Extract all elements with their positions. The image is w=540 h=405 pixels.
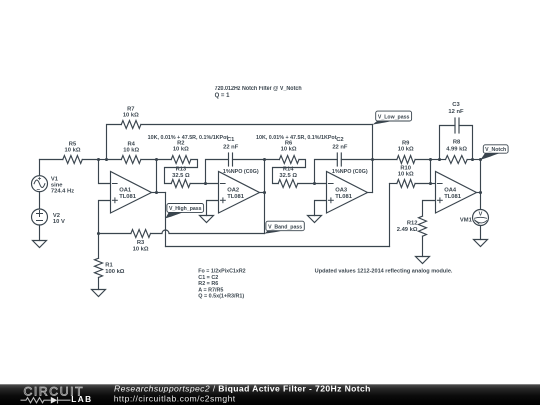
node: OA4 summing junction <box>429 182 432 185</box>
wire: high-pass bottom feed <box>166 246 390 248</box>
svg-text:32.5 Ω: 32.5 Ω <box>279 173 297 179</box>
resistor R13 32.5 ohm <box>171 180 190 188</box>
voltmeter VM1 <box>473 210 489 226</box>
svg-text:32.5 Ω: 32.5 Ω <box>172 173 190 179</box>
wire: OA4 output <box>477 192 481 194</box>
wire: R2 to R13 jog <box>165 160 198 184</box>
svg-text:OA2: OA2 <box>227 187 239 193</box>
node: OA4 output junction <box>479 191 482 194</box>
capacitor C2 22nF <box>315 160 338 184</box>
op-amp OA1 TL081 <box>111 172 152 214</box>
resistor R5 10k <box>63 156 83 164</box>
ground (R1) <box>92 290 106 297</box>
svg-text:10 kΩ: 10 kΩ <box>281 147 297 153</box>
resistor R1 100k <box>98 234 100 259</box>
svg-text:R10: R10 <box>400 165 411 171</box>
wire: band-pass vertical <box>264 193 266 234</box>
wire: to OA4 minus input <box>431 183 436 185</box>
svg-text:TL081: TL081 <box>227 194 245 200</box>
node: OA1 output to bus <box>155 158 158 161</box>
resistor R3 10k <box>99 233 131 235</box>
svg-text:720.012Hz Notch Filter @ V_Not: 720.012Hz Notch Filter @ V_Notch <box>215 86 302 92</box>
wire: OA3 output up to R7 line <box>372 125 374 193</box>
wire: OA1 output up to bus <box>156 160 158 193</box>
wire: R13 to OA2 minus <box>190 183 218 185</box>
wire: bus segment <box>431 159 440 161</box>
node: R9/R10 to OA4 minus <box>429 158 432 161</box>
svg-text:V_High_pass: V_High_pass <box>169 206 202 212</box>
svg-text:LAB: LAB <box>71 394 92 404</box>
wire: high-pass vertical <box>165 193 167 247</box>
op-amp OA3 TL081 <box>327 172 368 214</box>
svg-text:V_Notch: V_Notch <box>485 147 506 153</box>
wire: OA1 minus input <box>99 160 111 184</box>
svg-text:Researchsupportspec2 / Biquad: Researchsupportspec2 / Biquad Active Fil… <box>114 384 371 394</box>
source V1 sine 724.4 Hz <box>32 176 48 192</box>
wire: OA3 output <box>368 192 373 194</box>
svg-text:4.99 kΩ: 4.99 kΩ <box>446 146 467 152</box>
ground (OA2 +) <box>200 216 214 223</box>
wire: OA2 output <box>260 192 265 194</box>
net flag V_Notch <box>481 153 501 160</box>
svg-text:OA4: OA4 <box>444 187 457 193</box>
resistor R8 4.99k <box>440 159 446 161</box>
svg-text:R5: R5 <box>69 141 77 147</box>
svg-text:10 V: 10 V <box>53 219 65 225</box>
svg-text:100 kΩ: 100 kΩ <box>105 269 125 275</box>
net flag V_Low_pass <box>373 121 394 125</box>
svg-text:1%NPO (C0G): 1%NPO (C0G) <box>223 169 259 175</box>
wire: R3 line with hop over high-pass wire <box>151 230 265 234</box>
resistor R14 32.5 ohm <box>278 180 298 188</box>
wire: V1 top lead <box>39 160 41 176</box>
svg-text:R3: R3 <box>137 240 145 246</box>
svg-text:TL081: TL081 <box>335 194 353 200</box>
wire: OA2 output to bus <box>264 160 266 193</box>
svg-text:10 kΩ: 10 kΩ <box>398 172 414 178</box>
node: OA2 output junction <box>263 191 266 194</box>
resistor R12 2.49k <box>419 216 427 236</box>
svg-text:http://circuitlab.com/c2smght: http://circuitlab.com/c2smght <box>114 394 236 404</box>
node: V_Notch <box>479 158 482 161</box>
ground (VM1) <box>474 240 488 247</box>
node: OA2 summing junction <box>204 182 207 185</box>
svg-text:10 kΩ: 10 kΩ <box>398 147 414 153</box>
op-amp OA2 TL081 <box>219 172 260 214</box>
svg-text:TL081: TL081 <box>444 194 462 200</box>
op-amp OA4 TL081 <box>436 172 477 214</box>
resistor R2 10k <box>171 156 191 164</box>
svg-text:R6: R6 <box>285 140 293 146</box>
resistor R9 10k <box>373 159 397 161</box>
svg-text:V_Low_pass: V_Low_pass <box>378 115 410 121</box>
svg-text:R1: R1 <box>105 263 113 269</box>
resistor R10 10k <box>389 184 391 247</box>
svg-text:C1 = C2: C1 = C2 <box>198 275 218 281</box>
wire: V1 to V2 <box>39 192 41 209</box>
svg-text:724.4 Hz: 724.4 Hz <box>51 189 74 195</box>
ground (OA3 +) <box>308 216 322 223</box>
ground (R12) <box>416 257 430 264</box>
svg-text:10K, 0.01% + 47.5R, 0.1%/1KPot: 10K, 0.01% + 47.5R, 0.1%/1KPot <box>148 135 229 141</box>
wire: R6 to R14 jog <box>273 160 306 184</box>
node: OA3 summing junction <box>313 182 316 185</box>
svg-text:R12: R12 <box>407 221 418 227</box>
node: C1/R6/OA2 output <box>263 158 266 161</box>
svg-text:10 kΩ: 10 kΩ <box>173 147 189 153</box>
resistor R7 10k (feedback) <box>107 125 122 160</box>
svg-text:R2 = R6: R2 = R6 <box>198 281 218 287</box>
node: low-pass junction <box>371 158 374 161</box>
wire: notch vertical <box>480 160 482 210</box>
svg-text:R7: R7 <box>127 106 134 112</box>
svg-text:R9: R9 <box>402 140 410 146</box>
node: R8/C3 left <box>438 158 441 161</box>
svg-text:10 kΩ: 10 kΩ <box>123 113 139 119</box>
wire: VM1 to ground <box>480 226 482 240</box>
node: OA1 inverting input tap <box>97 158 100 161</box>
footer bar <box>0 384 540 405</box>
wire: OA2 plus input to ground <box>207 201 219 216</box>
svg-text:R14: R14 <box>283 167 294 173</box>
wire: V2 to ground <box>39 225 41 241</box>
svg-text:V: V <box>479 212 483 218</box>
svg-text:Fo = 1/2xPixC1xR2: Fo = 1/2xPixC1xR2 <box>198 269 245 275</box>
svg-text:A = R7/R5: A = R7/R5 <box>198 287 223 293</box>
svg-text:22 nF: 22 nF <box>332 144 348 150</box>
node: R8/C3 right <box>471 158 474 161</box>
resistor R6 10k <box>265 159 280 161</box>
wire: bus segment <box>99 159 107 161</box>
svg-text:R8: R8 <box>453 140 461 146</box>
svg-text:C1: C1 <box>227 137 235 143</box>
svg-text:R4: R4 <box>127 141 135 147</box>
svg-text:VM1: VM1 <box>460 217 473 223</box>
wire: OA1 output <box>152 192 166 194</box>
wire: OA4 plus input <box>423 201 436 217</box>
svg-text:C3: C3 <box>452 102 460 108</box>
node: R7 feedback tap <box>105 158 108 161</box>
svg-text:R2: R2 <box>177 140 184 146</box>
capacitor C1 22nF <box>206 160 229 184</box>
wire: to V_Notch node <box>473 159 481 161</box>
svg-text:10 kΩ: 10 kΩ <box>65 148 81 154</box>
capacitor C3 12nF <box>440 126 456 160</box>
svg-text:10K, 0.01% + 47.5R, 0.1%/1KPot: 10K, 0.01% + 47.5R, 0.1%/1KPot <box>256 135 337 141</box>
svg-text:22 nF: 22 nF <box>223 144 239 150</box>
svg-text:V_Band_pass: V_Band_pass <box>268 224 302 230</box>
svg-text:10 kΩ: 10 kΩ <box>123 148 139 154</box>
source V2 10V <box>32 209 48 225</box>
svg-text:1%NPO (C0G): 1%NPO (C0G) <box>332 169 368 175</box>
ground (V2) <box>33 241 47 248</box>
wire: R7 feedback line to V_Low_pass <box>141 124 373 126</box>
svg-text:OA3: OA3 <box>335 187 348 193</box>
svg-text:C2: C2 <box>336 137 343 143</box>
resistor R4 10k <box>107 159 122 161</box>
wire: R14 to OA3 minus <box>298 183 327 185</box>
svg-text:R13: R13 <box>176 167 187 173</box>
svg-text:Q = 1: Q = 1 <box>215 93 231 99</box>
net flag V_Band_pass <box>265 230 284 234</box>
svg-text:TL081: TL081 <box>119 194 137 200</box>
wire: down to OA4 minus <box>430 160 432 184</box>
svg-text:OA1: OA1 <box>119 187 132 193</box>
svg-text:Updated values 1212-2014 refle: Updated values 1212-2014 reflecting anal… <box>315 269 453 275</box>
node: OA1 output junction <box>155 191 158 194</box>
svg-text:Q = 0.5x(1+R3/R1): Q = 0.5x(1+R3/R1) <box>198 294 244 300</box>
wire: R5 to node <box>82 159 98 161</box>
net flag V_High_pass <box>166 212 185 218</box>
wire: OA3 plus input to ground <box>315 201 327 216</box>
svg-text:10 kΩ: 10 kΩ <box>133 246 149 252</box>
CircuitLab logo <box>21 385 93 405</box>
wire: V1 to R5 <box>40 159 63 161</box>
node: R1/R3 junction <box>97 232 100 235</box>
svg-text:2.49 kΩ: 2.49 kΩ <box>397 227 418 233</box>
wire: OA1 plus input <box>99 201 111 234</box>
svg-text:12 nF: 12 nF <box>448 109 464 115</box>
